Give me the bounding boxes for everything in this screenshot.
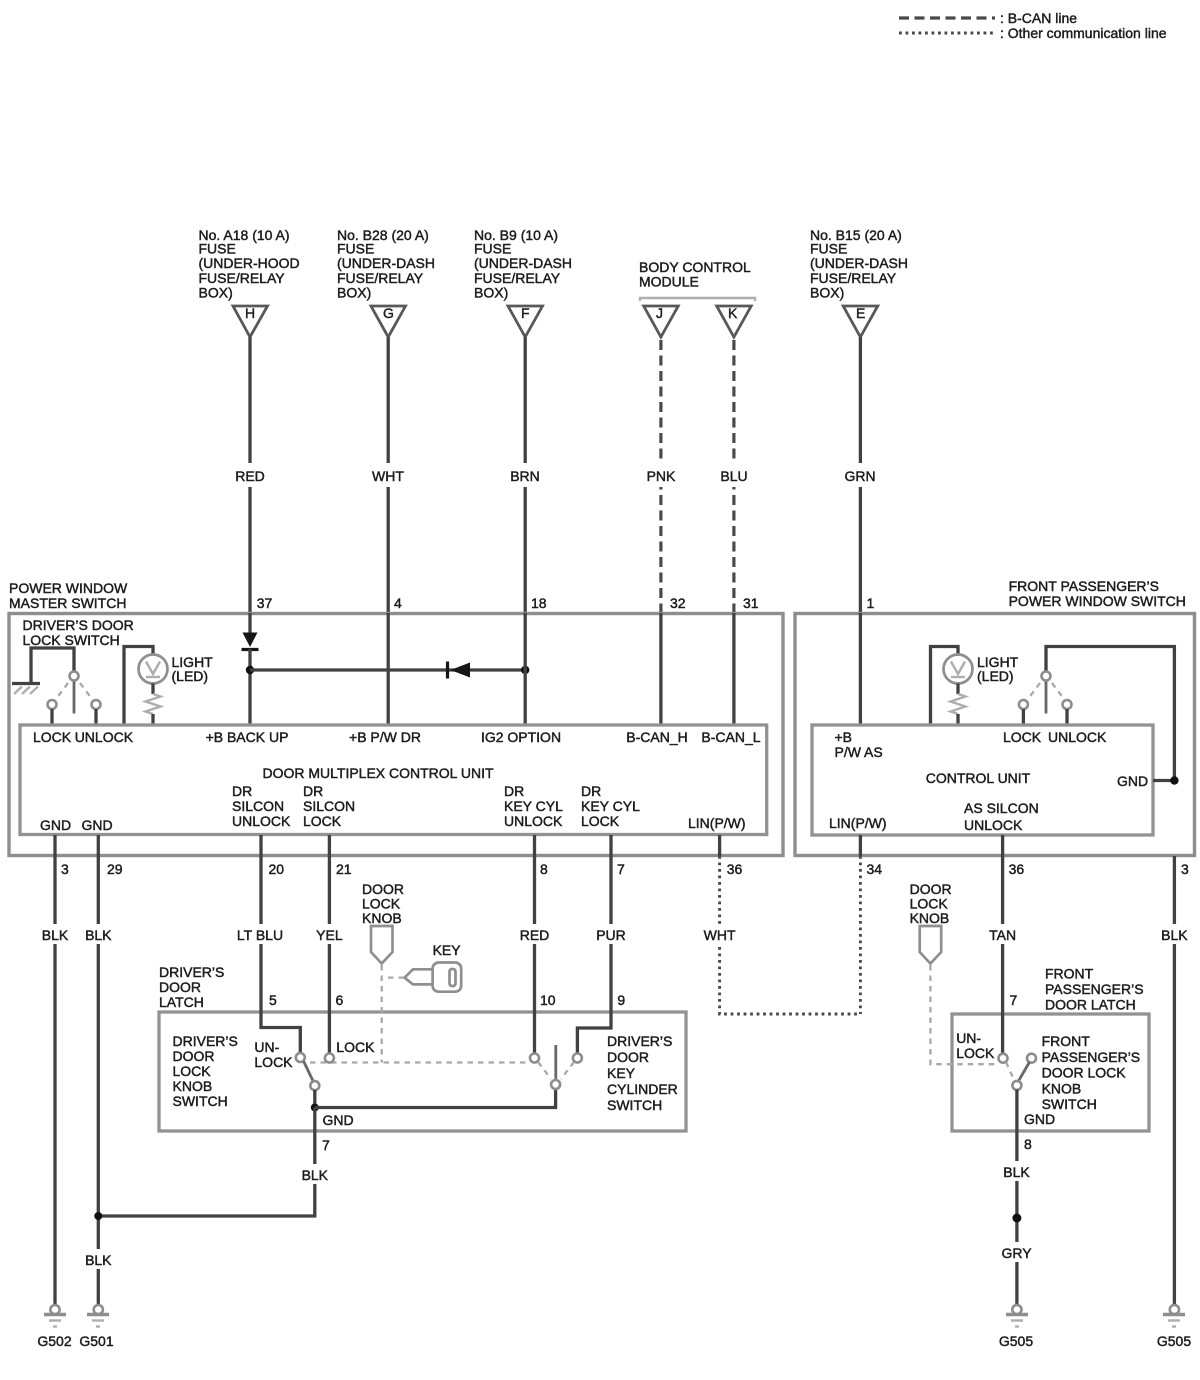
fuse A18 connector H [233, 305, 268, 337]
svg-text:POWER WINDOW: POWER WINDOW [9, 580, 128, 596]
pin 3 label left [61, 861, 69, 877]
svg-text:KEY CYL: KEY CYL [504, 798, 563, 814]
svg-text:+B P/W DR: +B P/W DR [349, 729, 421, 745]
driver's door lock switch dashed throws [56, 683, 92, 699]
wire link from +B BACK UP to IG2 OPTION [250, 668, 525, 671]
key label [433, 942, 462, 958]
LED light L1 [139, 654, 214, 684]
svg-text:AS SILCON: AS SILCON [964, 800, 1039, 816]
node junction GND driver latch [311, 1104, 319, 1112]
legend Other communication line sample [899, 25, 1167, 41]
svg-text:GRY: GRY [1001, 1245, 1032, 1261]
svg-text:5: 5 [269, 992, 277, 1008]
stub pin 20 [259, 835, 262, 856]
svg-text:KEY CYL: KEY CYL [581, 798, 640, 814]
passenger LOCK contact [1019, 700, 1028, 725]
door lock knob driver symbol [371, 926, 393, 964]
pin label LIN(P/W) left unit [688, 815, 746, 831]
pin 6 label [336, 992, 344, 1008]
svg-text:: B-CAN line: : B-CAN line [1000, 10, 1077, 26]
svg-text:KNOB: KNOB [910, 910, 950, 926]
LED bracket in passenger switch [931, 647, 959, 726]
svg-text:(UNDER-HOOD: (UNDER-HOOD [199, 255, 300, 271]
front passenger's power window switch label [1009, 578, 1186, 609]
wire BLK GRY pin 8 to G505 [1000, 1131, 1034, 1305]
wire GRN fuse E to pin 1 [841, 337, 880, 613]
driver's door latch box [159, 1012, 686, 1131]
passenger knob switch lever [1019, 1062, 1030, 1081]
svg-text:RED: RED [520, 927, 550, 943]
svg-text:BLK: BLK [42, 927, 69, 943]
svg-text:KEY: KEY [607, 1065, 636, 1081]
driver's door lock switch common wire and bracket [31, 648, 74, 682]
node junction splice BLK GRY [1012, 1214, 1021, 1223]
svg-text:LOCK: LOCK [254, 1054, 293, 1070]
stub pin 21 [328, 835, 331, 856]
passenger lock switch dashed throws [1028, 683, 1064, 699]
pin 8 label [540, 861, 548, 877]
dashed link key to knob [383, 976, 404, 978]
svg-text:+B BACK UP: +B BACK UP [206, 729, 289, 745]
pin label LOCK passenger [1003, 729, 1042, 745]
svg-text:LOCK: LOCK [173, 1063, 212, 1079]
label UN-LOCK driver knob [254, 1039, 293, 1070]
wire RED fuse H to pin 37 [231, 337, 269, 613]
front passenger's door latch box [952, 1014, 1149, 1131]
svg-text:UNLOCK: UNLOCK [1048, 729, 1107, 745]
pin label B-CAN_H [626, 729, 687, 745]
wire TAN pin 36 to latch pin 7 [986, 856, 1020, 1054]
wire +B P/W DR inside box [387, 613, 390, 725]
svg-text:DR: DR [232, 783, 252, 799]
svg-text:F: F [521, 305, 530, 321]
key cyl switch UNLOCK contact [530, 1054, 539, 1063]
wire B-CAN_L inside box [732, 613, 735, 725]
wire LIN dotted pin 34 [859, 856, 862, 1014]
svg-text:TAN: TAN [989, 927, 1016, 943]
svg-text:MASTER SWITCH: MASTER SWITCH [9, 595, 126, 611]
svg-text:BOX): BOX) [474, 285, 508, 301]
svg-text:UN-: UN- [956, 1030, 981, 1046]
pin label LIN(P/W) passenger [829, 815, 887, 831]
BCM connector K [717, 305, 752, 337]
pin label B-CAN_L [701, 729, 760, 745]
pin label +B P/W AS [835, 729, 883, 760]
pin label UNLOCK [75, 729, 134, 745]
svg-text:BLK: BLK [1003, 1164, 1030, 1180]
svg-text:32: 32 [670, 595, 686, 611]
LED light L2 [944, 654, 1019, 684]
svg-text:BLU: BLU [720, 468, 747, 484]
svg-text:WHT: WHT [704, 927, 736, 943]
driver knob switch lever [304, 1061, 314, 1082]
svg-text:KEY: KEY [433, 942, 462, 958]
svg-text:10: 10 [540, 992, 556, 1008]
svg-text:7: 7 [322, 1137, 330, 1153]
svg-text:G505: G505 [999, 1333, 1033, 1349]
LED light circuit bracket in master switch [124, 647, 153, 726]
svg-text:SWITCH: SWITCH [1042, 1096, 1097, 1112]
svg-text:KNOB: KNOB [1042, 1081, 1082, 1097]
node junction on G501 wire [94, 1212, 102, 1220]
svg-text:LT BLU: LT BLU [237, 927, 283, 943]
driver knob switch pivot [310, 1081, 319, 1107]
stub pin 3 left unit [53, 835, 56, 856]
pin label +B P/W DR [349, 729, 421, 745]
svg-text:DR: DR [504, 783, 524, 799]
svg-text:LIN(P/W): LIN(P/W) [688, 815, 746, 831]
pin label GND 29 [81, 817, 112, 833]
svg-text:37: 37 [257, 595, 273, 611]
node junction at +B BACK UP [246, 666, 254, 674]
svg-text:DRIVER’S: DRIVER’S [159, 964, 224, 980]
svg-text:20: 20 [269, 861, 285, 877]
driver's door lock switch label [23, 617, 134, 648]
svg-text:(UNDER-DASH: (UNDER-DASH [474, 255, 572, 271]
ground symbol in master switch [12, 684, 40, 695]
svg-text:GND: GND [1024, 1111, 1055, 1127]
svg-text:LOCK: LOCK [956, 1045, 995, 1061]
legend B-CAN line sample [899, 10, 1077, 26]
svg-text:KNOB: KNOB [173, 1078, 213, 1094]
ground G505 right [1157, 1305, 1191, 1349]
body control module label [639, 259, 751, 290]
pin label DR SILCON LOCK [303, 783, 355, 829]
svg-text:PASSENGER’S: PASSENGER’S [1045, 981, 1144, 997]
svg-text:DR: DR [581, 783, 601, 799]
svg-text:SWITCH: SWITCH [607, 1097, 662, 1113]
fuse B9 connector F [508, 305, 543, 337]
driver's door key cylinder switch label [607, 1033, 678, 1113]
svg-text:(LED): (LED) [172, 668, 209, 684]
pin 8 label below passenger latch [1024, 1136, 1032, 1152]
svg-text:DOOR: DOOR [159, 979, 201, 995]
svg-text:GND: GND [1117, 773, 1148, 789]
passenger knob switch dashed throw [1006, 1062, 1014, 1080]
front passenger's door latch label [1045, 966, 1144, 1013]
svg-text:DR: DR [303, 783, 323, 799]
wire BLK passenger pin 3 to G505 [1158, 856, 1191, 1305]
wire B-CAN_H inside box [659, 613, 662, 725]
svg-text:FRONT: FRONT [1045, 966, 1094, 982]
pin 1 [867, 595, 875, 611]
pin label UNLOCK passenger [1048, 729, 1107, 745]
diode D1 on +B BACK UP line [242, 613, 259, 725]
pin label GND passenger [1117, 773, 1148, 789]
svg-text:SWITCH: SWITCH [173, 1093, 228, 1109]
wire BLU B-CAN K to pin 31 [715, 340, 753, 613]
pin 7 label passenger latch [1010, 992, 1018, 1008]
svg-text:LOCK: LOCK [581, 813, 620, 829]
stub pin 36 passenger [1001, 835, 1004, 856]
pin 21 label [336, 861, 352, 877]
fuse B28 connector G [371, 305, 406, 337]
svg-text:DOOR: DOOR [607, 1049, 649, 1065]
wire RED pin 8 to latch pin 10 [518, 856, 551, 1054]
fuse A18 label [199, 227, 300, 301]
svg-text:BOX): BOX) [337, 285, 371, 301]
pin label DR SILCON UNLOCK [232, 783, 291, 829]
svg-text:K: K [728, 305, 738, 321]
wire WHT fuse G to pin 4 [369, 337, 408, 613]
wire YEL pin 21 to latch pin 6 [313, 856, 346, 1054]
svg-text:B-CAN_L: B-CAN_L [701, 729, 760, 745]
driver's door lock switch pivot [70, 672, 79, 714]
wire key cyl common to junction [315, 1090, 556, 1108]
label UN-LOCK passenger knob [956, 1030, 995, 1061]
svg-text:3: 3 [61, 861, 69, 877]
door multiplex control unit label [262, 765, 493, 781]
svg-text:(UNDER-DASH: (UNDER-DASH [337, 255, 435, 271]
fuse B28 label [337, 227, 435, 301]
stub pin 8 [533, 835, 536, 856]
svg-text:DRIVER’S DOOR: DRIVER’S DOOR [23, 617, 134, 633]
key cyl switch dashed throws [538, 1062, 574, 1079]
svg-text:WHT: WHT [372, 468, 404, 484]
svg-text:29: 29 [107, 861, 123, 877]
svg-text:BLK: BLK [85, 927, 112, 943]
svg-text:DOOR LOCK: DOOR LOCK [1042, 1065, 1127, 1081]
wire IG2 line inside box [524, 613, 527, 725]
svg-text:GND: GND [81, 817, 112, 833]
svg-text:9: 9 [617, 992, 625, 1008]
wire BRN fuse F to pin 18 [506, 337, 545, 613]
pin 18 [531, 595, 547, 611]
control unit box passenger [812, 725, 1153, 835]
door multiplex control unit box [20, 725, 767, 835]
passenger lock switch pivot [1042, 672, 1051, 714]
fuse B15 connector E [843, 305, 878, 337]
svg-text:18: 18 [531, 595, 547, 611]
wire BLK pin 29 to G501 [82, 856, 114, 1305]
svg-text:UNLOCK: UNLOCK [504, 813, 563, 829]
wire PUR pin 7 to latch pin 9 [577, 856, 628, 1054]
svg-text:UNLOCK: UNLOCK [75, 729, 134, 745]
svg-text:+B: +B [835, 729, 853, 745]
pin label DR KEY CYL LOCK [581, 783, 640, 829]
pin 36 label left [727, 861, 743, 877]
pin 5 label [269, 992, 277, 1008]
driver knob switch LOCK contact [325, 1054, 334, 1063]
svg-text:G505: G505 [1157, 1333, 1191, 1349]
svg-text:36: 36 [727, 861, 743, 877]
pin label DR KEY CYL UNLOCK [504, 783, 563, 829]
svg-text:LIN(P/W): LIN(P/W) [829, 815, 887, 831]
stub pin 34 [859, 835, 862, 856]
dashed link knob driver [381, 965, 383, 1063]
svg-text:CYLINDER: CYLINDER [607, 1081, 678, 1097]
svg-text:RED: RED [235, 468, 265, 484]
svg-text:DOOR MULTIPLEX CONTROL UNIT: DOOR MULTIPLEX CONTROL UNIT [262, 765, 493, 781]
front passenger's power window switch box [795, 614, 1195, 856]
svg-text:PNK: PNK [647, 468, 676, 484]
svg-text:FRONT PASSENGER’S: FRONT PASSENGER’S [1009, 578, 1159, 594]
pin 29 label [107, 861, 123, 877]
passenger knob switch pivot [1012, 1081, 1021, 1131]
svg-text:G502: G502 [37, 1333, 71, 1349]
pin 7 label below driver latch [322, 1137, 330, 1153]
fuse B15 label [810, 227, 908, 301]
svg-text:UNLOCK: UNLOCK [232, 813, 291, 829]
dashed link knob passenger [930, 965, 998, 1064]
svg-text:BOX): BOX) [810, 285, 844, 301]
pin 4 [394, 595, 402, 611]
ground G505 left [999, 1305, 1033, 1349]
svg-text:DOOR LATCH: DOOR LATCH [1045, 997, 1136, 1013]
pin 32 [670, 595, 686, 611]
svg-text:8: 8 [1024, 1136, 1032, 1152]
svg-text:4: 4 [394, 595, 402, 611]
dashed link knob to key cyl switch [310, 1061, 530, 1063]
svg-text:8: 8 [540, 861, 548, 877]
svg-text:E: E [856, 305, 865, 321]
stub pin 36 left unit [718, 835, 721, 856]
svg-text:PASSENGER’S: PASSENGER’S [1042, 1049, 1141, 1065]
ground G501 [79, 1305, 113, 1349]
passenger lock switch common wire to GND [1046, 647, 1174, 781]
BCM connector J [644, 305, 679, 337]
ground G502 [37, 1305, 71, 1349]
svg-text:LOCK SWITCH: LOCK SWITCH [23, 632, 120, 648]
diode D2 on link wire [448, 662, 471, 679]
wire LT BLU pin 20 to latch pin 5 [236, 856, 300, 1053]
svg-text:B-CAN_H: B-CAN_H [626, 729, 687, 745]
svg-text:BOX): BOX) [199, 285, 233, 301]
door lock knob passenger label [910, 881, 952, 926]
wire GND 7 down from driver latch [98, 1108, 331, 1217]
svg-text:DRIVER’S: DRIVER’S [607, 1033, 672, 1049]
label LOCK driver knob [336, 1039, 375, 1055]
svg-text:SILCON: SILCON [303, 798, 355, 814]
svg-text:GND: GND [40, 817, 71, 833]
svg-text:: Other communication line: : Other communication line [1000, 25, 1167, 41]
svg-text:DOOR: DOOR [173, 1048, 215, 1064]
pin 3 label passenger [1181, 861, 1189, 877]
svg-text:1: 1 [867, 595, 875, 611]
svg-text:(UNDER-DASH: (UNDER-DASH [810, 255, 908, 271]
svg-text:IG2 OPTION: IG2 OPTION [481, 729, 561, 745]
svg-text:LOCK: LOCK [336, 1039, 375, 1055]
pin 37 [257, 595, 273, 611]
pin label IG2 OPTION [481, 729, 561, 745]
driver's door lock switch LOCK contact [48, 700, 57, 725]
pin 10 label [540, 992, 556, 1008]
wire PNK B-CAN J to pin 32 [642, 340, 680, 613]
svg-text:P/W AS: P/W AS [835, 744, 883, 760]
svg-text:BLK: BLK [85, 1252, 112, 1268]
fuse B9 label [474, 227, 572, 301]
svg-text:CONTROL UNIT: CONTROL UNIT [926, 770, 1031, 786]
passenger knob switch LOCK contact [1027, 1054, 1036, 1063]
svg-text:FRONT: FRONT [1042, 1033, 1091, 1049]
driver's door latch label [159, 964, 224, 1010]
svg-text:BRN: BRN [510, 468, 540, 484]
driver's door lock knob switch label [173, 1033, 238, 1109]
pin 34 label [867, 861, 883, 877]
resistor R1 below LED [146, 684, 161, 726]
svg-text:POWER WINDOW SWITCH: POWER WINDOW SWITCH [1009, 593, 1186, 609]
svg-text:LOCK: LOCK [303, 813, 342, 829]
door lock knob passenger symbol [920, 926, 942, 964]
svg-text:7: 7 [617, 861, 625, 877]
wire WHT LIN dotted pin 36 [702, 856, 860, 1014]
key cyl switch lever [554, 1045, 557, 1080]
passenger knob switch UNLOCK contact [999, 1054, 1008, 1063]
svg-text:J: J [656, 305, 663, 321]
key symbol [405, 963, 462, 992]
wire BLK pin 3 to G502 [39, 856, 71, 1305]
power window master switch box [9, 614, 783, 856]
svg-text:31: 31 [743, 595, 759, 611]
svg-text:21: 21 [336, 861, 352, 877]
pin label AS SILCON UNLOCK [964, 800, 1039, 833]
svg-text:34: 34 [867, 861, 883, 877]
driver's door lock switch UNLOCK contact [92, 700, 101, 725]
stub pin 7 [609, 835, 612, 856]
body control module bracket [640, 298, 755, 301]
svg-text:6: 6 [336, 992, 344, 1008]
svg-text:GND: GND [323, 1112, 354, 1128]
svg-text:LOCK: LOCK [33, 729, 72, 745]
node junction at IG2 OPTION [521, 666, 529, 674]
svg-text:LATCH: LATCH [159, 994, 204, 1010]
svg-text:MODULE: MODULE [639, 274, 699, 290]
node junction GND passenger [1170, 776, 1178, 784]
svg-text:G501: G501 [79, 1333, 113, 1349]
pin 7 label [617, 861, 625, 877]
pin 20 label [269, 861, 285, 877]
svg-text:36: 36 [1009, 861, 1025, 877]
svg-text:YEL: YEL [316, 927, 343, 943]
door lock knob driver label [362, 881, 404, 926]
front passenger's door lock knob switch label [1042, 1033, 1141, 1112]
svg-text:DRIVER’S: DRIVER’S [173, 1033, 238, 1049]
svg-text:H: H [245, 305, 255, 321]
wire GND stub to right edge [1153, 779, 1174, 782]
svg-text:G: G [383, 305, 394, 321]
svg-text:PUR: PUR [596, 927, 626, 943]
label GND driver latch [323, 1112, 354, 1128]
pin label GND 3 [40, 817, 71, 833]
resistor R2 below LED [951, 684, 966, 726]
svg-text:KNOB: KNOB [362, 910, 402, 926]
stub pin 29 [97, 835, 100, 856]
passenger UNLOCK contact [1063, 700, 1072, 725]
pin label +B BACK UP [206, 729, 289, 745]
pin 9 label [617, 992, 625, 1008]
key cyl switch pivot [551, 1080, 560, 1089]
pin label LOCK [33, 729, 72, 745]
svg-text:3: 3 [1181, 861, 1189, 877]
svg-text:LOCK: LOCK [1003, 729, 1042, 745]
pin 36 label passenger [1009, 861, 1025, 877]
svg-text:UNLOCK: UNLOCK [964, 817, 1023, 833]
pin 31 [743, 595, 759, 611]
svg-text:BLK: BLK [302, 1167, 329, 1183]
driver knob switch UNLOCK contact [296, 1053, 305, 1062]
svg-text:GRN: GRN [844, 468, 875, 484]
svg-text:BLK: BLK [1161, 927, 1188, 943]
key cyl switch LOCK contact [573, 1054, 582, 1063]
wire GRN inside passenger switch box [859, 613, 862, 725]
svg-text:7: 7 [1010, 992, 1018, 1008]
svg-text:SILCON: SILCON [232, 798, 284, 814]
svg-text:(LED): (LED) [977, 668, 1014, 684]
power window master switch label [9, 580, 128, 611]
svg-text:UN-: UN- [254, 1039, 279, 1055]
control unit label [926, 770, 1031, 786]
label GND passenger latch [1024, 1111, 1055, 1127]
